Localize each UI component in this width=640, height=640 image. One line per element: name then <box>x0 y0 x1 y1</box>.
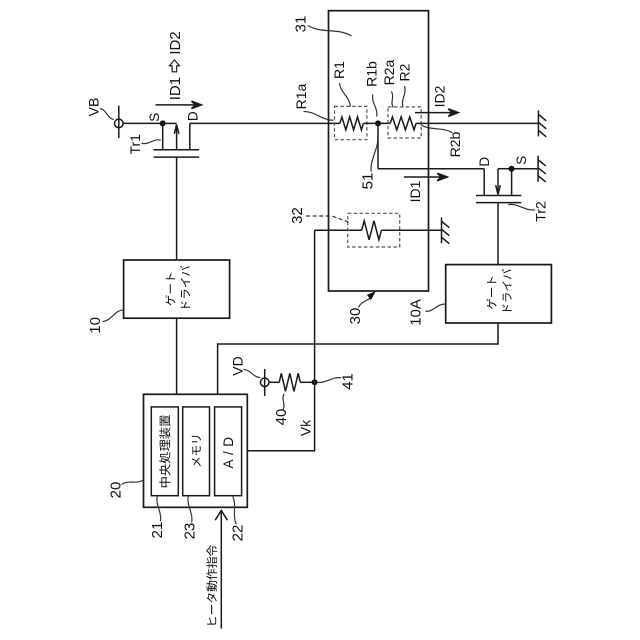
svg-text:R1: R1 <box>331 61 347 79</box>
svg-text:D: D <box>186 111 201 121</box>
svg-text:D: D <box>477 157 492 167</box>
text heater command <box>206 545 217 625</box>
leader 22 <box>233 496 237 524</box>
svg-text:10: 10 <box>87 317 104 334</box>
svg-text:ID1: ID1 <box>407 180 423 202</box>
arrow current ID2 <box>415 109 458 117</box>
wire Tr2 source to ground <box>512 168 538 170</box>
text gate driver 10A line2 <box>502 269 512 311</box>
leader 23 <box>188 496 192 522</box>
svg-text:R2: R2 <box>397 63 413 81</box>
leader R2 <box>402 86 405 107</box>
leader Tr1 <box>142 140 161 144</box>
svg-text:R2a: R2a <box>381 59 397 85</box>
svg-text:ID1: ID1 <box>167 77 184 100</box>
svg-text:32: 32 <box>289 207 306 224</box>
svg-text:ID2: ID2 <box>167 31 184 54</box>
svg-text:51: 51 <box>360 173 377 190</box>
text gate driver 10A line1 <box>486 277 496 309</box>
wire driver 10 to CPU <box>176 318 178 394</box>
leader R1b <box>372 95 376 117</box>
svg-text:VD: VD <box>230 356 246 375</box>
leader VD <box>244 370 261 378</box>
terminal VD <box>260 369 269 396</box>
block gate driver 10 <box>124 260 230 318</box>
leader VB <box>100 109 114 120</box>
leader R1a <box>304 111 334 120</box>
text gate driver 10 line1 <box>165 273 175 305</box>
leader 20 <box>122 480 144 485</box>
leader 10 <box>103 310 124 322</box>
transistor Tr2 <box>476 169 521 203</box>
text CPU <box>159 415 170 487</box>
dashed box 32 <box>348 213 400 247</box>
svg-text:10A: 10A <box>408 299 425 326</box>
node 41 junction <box>312 379 318 385</box>
block gate driver 10A <box>446 265 552 323</box>
wire Vk net <box>247 230 314 450</box>
wire R2 to ground <box>416 122 538 124</box>
svg-text:R1b: R1b <box>364 61 380 87</box>
leader Tr2 <box>508 204 535 210</box>
arrowhead 30 <box>367 291 376 300</box>
leader R2b <box>421 125 453 133</box>
wire resistor 40 to node 41 <box>300 381 314 383</box>
wire Tr1 drain to R1 <box>190 122 340 124</box>
ground resistor 32 <box>442 217 450 243</box>
arrow heater command <box>215 510 227 628</box>
leader 41 <box>317 378 341 383</box>
wire Vk to resistor 32 <box>315 229 362 231</box>
leader 10A <box>426 304 446 311</box>
wire CPU to driver 10A <box>218 323 498 394</box>
block CPU 21 <box>151 407 178 496</box>
text memory <box>192 436 201 467</box>
svg-text:R1a: R1a <box>293 83 309 109</box>
svg-text:Vk: Vk <box>298 419 314 436</box>
svg-text:31: 31 <box>293 16 310 33</box>
wire resistor 32 to ground <box>381 229 441 231</box>
leader 31 <box>308 26 352 37</box>
resistor R1 <box>340 117 364 130</box>
svg-text:S: S <box>514 156 529 165</box>
resistor 40 <box>279 373 300 391</box>
leader 40 <box>283 394 284 410</box>
wire Tr1 gate to driver 10 <box>176 157 178 260</box>
resistor R2 <box>390 117 416 130</box>
leader R1 <box>340 83 351 107</box>
leader R2a <box>391 92 393 108</box>
leader 30 <box>359 294 374 308</box>
node S junction <box>160 120 166 126</box>
label ID1-ID2 <box>167 31 184 100</box>
svg-text:S: S <box>147 113 162 122</box>
wire VD to resistor 40 <box>269 381 279 383</box>
svg-text:A/D: A/D <box>221 432 236 468</box>
leader 51 <box>371 136 378 172</box>
svg-text:23: 23 <box>182 523 199 540</box>
arrow current Tr1 <box>156 101 202 109</box>
block AD converter 22 <box>215 407 242 496</box>
resistor 32 <box>362 221 382 240</box>
ground Tr2 source <box>538 156 546 182</box>
svg-text:Tr1: Tr1 <box>127 134 143 155</box>
block control unit 20 <box>144 394 248 507</box>
wire R1 to R2 <box>363 122 390 124</box>
svg-text:Tr2: Tr2 <box>533 201 549 222</box>
text gate driver 10 line2 <box>180 266 190 308</box>
terminal VB <box>115 106 124 139</box>
svg-text:41: 41 <box>340 373 357 390</box>
transistor Tr1 <box>154 123 200 157</box>
wire Tr2 gate to driver 10A <box>497 203 499 265</box>
svg-text:21: 21 <box>149 522 166 539</box>
svg-text:VB: VB <box>86 98 102 117</box>
ground ID2 <box>538 110 546 136</box>
wire node 51 vertical <box>377 123 379 168</box>
svg-text:ID2: ID2 <box>432 85 448 107</box>
leader 32 dashed <box>306 216 349 222</box>
node 51 junction <box>375 120 381 126</box>
node Tr2 source junction <box>509 166 515 172</box>
block memory 23 <box>183 407 210 496</box>
block 31 resistor network <box>329 11 429 291</box>
svg-text:30: 30 <box>347 308 364 325</box>
wire VB to Tr1 source <box>123 122 163 124</box>
leader 21 <box>157 496 161 521</box>
wire node 51 to Tr2 drain <box>378 168 484 170</box>
dashed box R1a <box>335 106 367 139</box>
svg-text:22: 22 <box>230 525 247 542</box>
svg-text:R2b: R2b <box>447 131 463 157</box>
arrow current ID1 <box>404 173 447 181</box>
svg-text:40: 40 <box>273 409 290 426</box>
dashed box R2a <box>388 107 421 138</box>
